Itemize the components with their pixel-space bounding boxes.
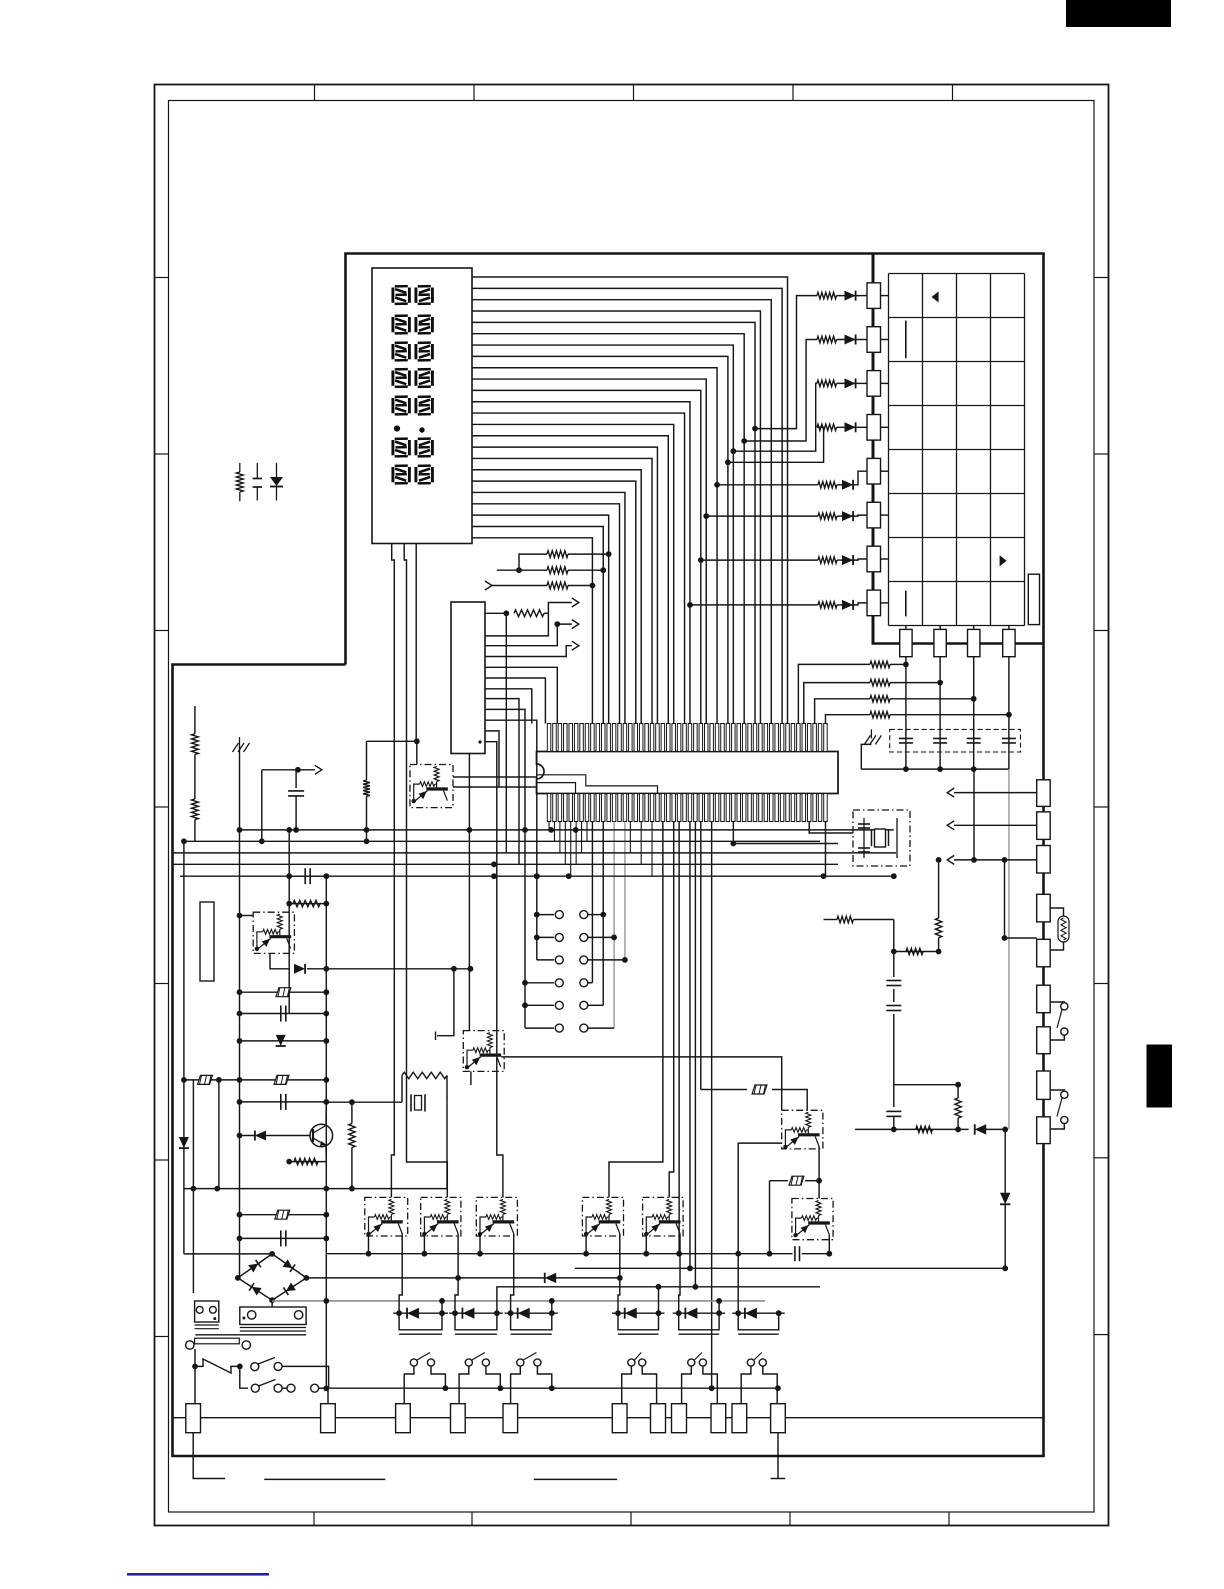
wire diode box feeds [399, 1237, 402, 1314]
wire right verticals [973, 769, 975, 860]
transistor Q10 [782, 1110, 823, 1149]
resistor R15 (key row 5) [867, 458, 881, 484]
connector CN3 (left tall) [200, 902, 214, 981]
wire bundle from IC to driver transistors [609, 822, 663, 1198]
LED D1 (indicator) [276, 463, 278, 477]
transistor Q3 (oscillator) [310, 1124, 333, 1147]
IC U1 top pins [547, 724, 551, 752]
connector CN4 (power board) [195, 1301, 219, 1322]
resistor R28 (key row 8) [818, 602, 837, 608]
IC U1 bottom pins [547, 794, 551, 822]
IC U1 body [537, 752, 839, 794]
wire cap link 1253 (emitter bus) [326, 1253, 792, 1255]
resistor R33 (key column 3) [870, 696, 890, 702]
bus wire 1388 [326, 1387, 778, 1389]
connector CN2 (left of IC) [451, 602, 485, 754]
wire CN2 bottom pin [468, 754, 470, 830]
resistor R27 (key row 7) [818, 557, 837, 563]
diode D5 [240, 1135, 311, 1137]
capacitor C2 + test point arrow [262, 769, 296, 771]
connector pin P7 [651, 1404, 666, 1433]
capacitor C5 [240, 1101, 327, 1103]
wires from CN2 [485, 667, 557, 723]
resistor R24 (key row 4) [817, 424, 837, 430]
switch S21 [1061, 1091, 1068, 1098]
wire left vertical D [218, 1080, 220, 1189]
resistor R13 (key row 3) [867, 371, 881, 397]
transistor Q8 [643, 1197, 684, 1236]
transistor Q2 [253, 912, 294, 953]
resistor R7 [485, 581, 492, 590]
connector pin P8 [672, 1404, 687, 1433]
resistor R8 (left) [194, 706, 196, 734]
zener diode D4 [240, 1040, 327, 1042]
switch S13 [628, 1359, 635, 1366]
fusible resistor FR2 [240, 991, 327, 993]
diode D16 (key row 6) [837, 515, 852, 517]
wire IC pin drops [548, 822, 550, 830]
wire fan-out from display to IC [472, 277, 788, 724]
switch S12 [517, 1359, 524, 1366]
bridge rectifier D6-D9 [238, 1254, 307, 1300]
ground (left) [239, 737, 241, 746]
fusible resistor FR1 [701, 1089, 747, 1091]
label underline 1 [264, 1478, 385, 1480]
resistor R25 (key row 5) [818, 482, 837, 488]
resistor R44 (right rail) [1037, 939, 1051, 967]
wire left vertical C [192, 1080, 194, 1293]
wire left vertical E [288, 830, 290, 1014]
resistor chain right rail [1043, 644, 1045, 1418]
wire bottom left drop [193, 1433, 225, 1479]
bus wire 2 [184, 840, 820, 842]
resistor R4 (CN2) [485, 612, 506, 614]
wire Q1 top feed [367, 740, 417, 742]
fusible resistor FR4 [240, 1079, 327, 1081]
wire bus 1188 [184, 1188, 447, 1190]
FL display colon dots [394, 425, 400, 431]
schematic block outline [173, 254, 1044, 1457]
connector CN5 (AC inlet) [240, 1307, 306, 1325]
operation switches S1-S6 [537, 914, 554, 916]
frame tick marks top [314, 85, 316, 101]
connector pin P9 [711, 1404, 726, 1433]
connector pin P4 [451, 1404, 466, 1433]
border frame inner [169, 101, 1095, 1513]
diode D11 assembly (relay box 2) [449, 1312, 503, 1314]
resistor R53 (vertical) [938, 860, 940, 918]
frame tick marks right [1094, 277, 1109, 279]
wire left vertical A [239, 830, 241, 1278]
wire diode box right risers [441, 1301, 443, 1313]
key symbol left-triangle (play) [932, 291, 939, 302]
wire crystal right [446, 1102, 448, 1188]
wire left vertical F [325, 876, 327, 1388]
diode D15 assembly (relay box 6) [732, 1312, 785, 1314]
connector pin P1 [186, 1404, 201, 1433]
gray bus from bridge [272, 1300, 765, 1302]
diode D14 assembly (relay box 5) [673, 1312, 725, 1314]
transistor Q9 [792, 1199, 833, 1240]
resistor R47 (right rail) [1037, 1071, 1051, 1099]
bus wire bottom 1418 [173, 1417, 1044, 1419]
wire Q10 input [738, 1143, 782, 1313]
ceramic resonator X2 (dash-dot box) [853, 810, 910, 866]
resistor R21 (key row 1) [817, 292, 837, 298]
resistor R14 (key row 4) [867, 415, 881, 441]
wire key row feeds [752, 426, 758, 432]
resistor R17 (key row 7) [867, 546, 881, 572]
diode D14 (key row 4) [837, 426, 861, 428]
key scan resistor ladder bus [873, 254, 875, 644]
diode D18 (key row 8) [837, 604, 852, 606]
key symbol bar row2 [905, 321, 907, 359]
resistor R49 [824, 919, 838, 921]
wire arrows to IC [954, 792, 1037, 794]
key matrix sub-block separator [873, 254, 1044, 644]
capacitor array (dashed box) [890, 729, 1021, 752]
wire osc node [326, 1101, 402, 1103]
bus wire 5 [180, 875, 894, 877]
chassis line [195, 1334, 306, 1336]
resistor R52 + wire 951 [894, 951, 939, 953]
wire display bottom pin 1 [391, 544, 394, 1198]
transistor Q4 [365, 1197, 408, 1236]
wire key column 4 down [1008, 769, 1010, 1129]
diode D10 assembly (relay box 1) [393, 1312, 448, 1314]
resistor R31 (key column 1) [870, 661, 890, 667]
wire resonator to IC [809, 822, 853, 834]
diode D21 [1004, 1129, 1006, 1193]
resistor R11 (key row 1) [867, 283, 881, 309]
key matrix switch grid [888, 274, 890, 626]
connector pin P6 [612, 1404, 627, 1433]
wire connector stub box2 [327, 1388, 329, 1404]
bus wire 4 [173, 863, 839, 865]
transistor Q5 [421, 1197, 461, 1236]
crystal X1 [401, 1075, 403, 1102]
diode D15 (key row 5) [837, 484, 852, 486]
diode D12 assembly (relay box 3) [505, 1312, 558, 1314]
capacitor C4 [240, 1013, 327, 1015]
wire to bridge top [184, 1253, 272, 1255]
key symbol right-triangle (play) [1000, 555, 1007, 566]
resistor R26 (key row 6) [818, 513, 837, 519]
connector CN1 (key matrix right) [1028, 574, 1039, 624]
thermistor TH1 [1050, 908, 1063, 916]
resistor R12 (key row 2) [867, 327, 881, 353]
resistor R16 (key row 6) [867, 502, 881, 528]
power switch S7 [192, 1364, 198, 1370]
wire test terminal [437, 969, 454, 1036]
frame tick marks bottom [313, 1512, 315, 1526]
transistor Q1 (reset) [410, 765, 453, 808]
key symbol bar row8 [905, 591, 907, 617]
connector pin P3 [396, 1404, 411, 1433]
capacitor C11 [893, 952, 895, 978]
FL display DISP1 box [372, 268, 472, 544]
diode D2 [179, 1137, 189, 1148]
wire bridge DC+ [305, 1277, 307, 1279]
resistor R41 (right rail) [1037, 812, 1051, 840]
diode D20 [975, 1124, 986, 1134]
wire switch sense lines [591, 822, 593, 983]
fusible resistor FR5 [240, 1214, 327, 1216]
wire left vertical B [183, 841, 185, 1137]
wire 1268 link [575, 1267, 1005, 1269]
switch S10 [410, 1359, 417, 1366]
wire CN2 lower stubs [485, 699, 519, 865]
ground (cap array) [870, 729, 872, 738]
capacitor C10 [893, 1075, 895, 1107]
switch S15 [747, 1359, 754, 1366]
fusible resistor FR6 + Q10-Q9 link [770, 1180, 789, 1182]
connector pin P11 [771, 1404, 786, 1433]
connector pin P5 [503, 1404, 518, 1433]
resistor R34 (key column 4) [870, 712, 890, 718]
bus wire 3 [173, 852, 897, 854]
switch S8b [251, 1384, 259, 1392]
connector boxes below key matrix [905, 626, 907, 770]
black label box top-right [1066, 0, 1171, 27]
resistor R18 (key row 8) [867, 590, 881, 616]
wire display bottom pin 2 [404, 544, 447, 1198]
transistor Q11 [463, 1031, 504, 1072]
resistor R42 (right rail) [1037, 846, 1051, 874]
connector pin P2 [321, 1404, 336, 1433]
bus wire 1 [240, 829, 894, 831]
label underline 2 [534, 1478, 617, 1480]
diode D13 assembly (relay box 4) [612, 1312, 665, 1314]
wire driver emitters to bus [368, 1234, 370, 1254]
resistor R9 (left) [192, 799, 199, 820]
resistor R43 (right rail) [1037, 894, 1051, 922]
capacitor C6 [240, 1237, 327, 1239]
connector pin P10 [732, 1404, 747, 1433]
resistor R45 (right rail) [1037, 985, 1051, 1013]
wire cap array common [861, 768, 1009, 770]
resistor R12 [289, 1161, 326, 1163]
black label box right side [1147, 1045, 1173, 1108]
switch S8a [251, 1363, 259, 1371]
diode D12 (key row 2) [837, 339, 861, 341]
frame tick marks left [155, 277, 169, 279]
power transformer T1 [195, 1338, 240, 1344]
wire key column links [798, 664, 870, 723]
wire Q1 to IC [453, 776, 537, 778]
border frame outer [155, 85, 1109, 1526]
wire IC lower-left steps [537, 775, 658, 794]
diode D13 (key row 3) [837, 382, 861, 384]
resistor R1 (indicator) [239, 463, 241, 472]
wire display bottom pin 3 [415, 544, 417, 742]
resistor R23 (key row 3) [817, 380, 837, 386]
wire bottom right drop [777, 1433, 779, 1479]
transistor Q6 [476, 1197, 517, 1236]
resistor R10 [366, 741, 368, 780]
resistor R5 [519, 554, 547, 570]
blue underline bottom-left [127, 1573, 269, 1576]
wire right cluster [855, 1128, 969, 1130]
wire CN2 stub arrows [485, 603, 572, 636]
fusible resistor FR3 [184, 1079, 240, 1081]
resistor R11 [289, 903, 326, 905]
capacitor C1 (indicator) [256, 463, 258, 479]
switch S14 [688, 1359, 695, 1366]
resistor R48 (right rail) [1037, 1117, 1051, 1144]
resistor R13 (osc) [351, 1102, 353, 1123]
resistor R40 (right rail) [1037, 780, 1051, 807]
transistor Q7 [582, 1197, 623, 1236]
capacitor C3 [289, 875, 326, 877]
resistor R32 (key column 2) [870, 679, 890, 685]
wire bridge right vertex + diode D11 [306, 1277, 544, 1279]
switch S11 [465, 1359, 472, 1366]
wire C10-R51 top link [894, 1084, 958, 1086]
resistor R6 [497, 569, 547, 571]
resistor R46 (right rail) [1037, 1027, 1051, 1054]
resistor R50 [916, 1126, 933, 1132]
zener diode D3 [270, 953, 290, 968]
diode D17 (key row 7) [837, 559, 852, 561]
diode D11 (key row 1) [837, 295, 861, 297]
wire bridge AC bottom [271, 1300, 273, 1307]
resistor R22 (key row 2) [817, 336, 837, 342]
resistor R51 [957, 1085, 959, 1098]
switch S20 [1061, 1003, 1068, 1010]
FL display digits [391, 288, 394, 303]
